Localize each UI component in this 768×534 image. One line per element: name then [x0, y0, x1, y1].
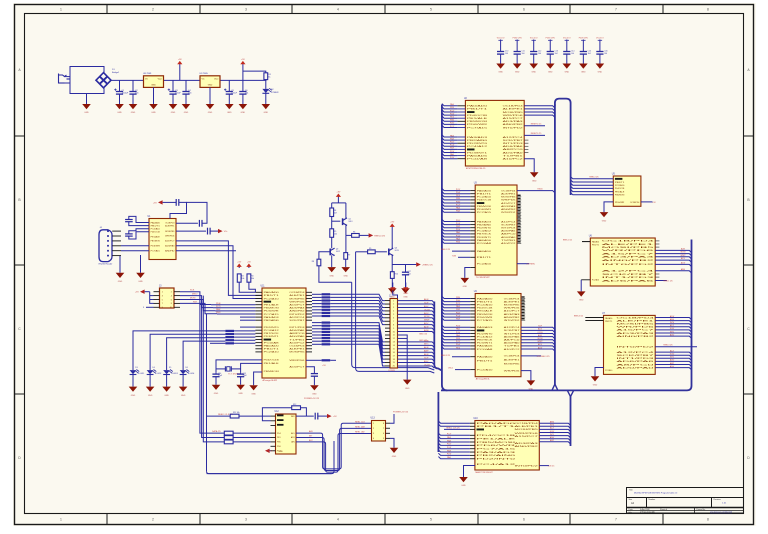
svg-text:PA0/: PA0/	[450, 103, 454, 106]
svg-text:GND: GND	[498, 72, 503, 74]
wire RP2 right	[330, 337, 366, 339]
wire J4 pin stub	[112, 245, 121, 247]
svg-text:AD6/PA6: AD6/PA6	[503, 145, 525, 148]
wire J3 right stub	[174, 302, 180, 304]
svg-text:GND: GND	[138, 281, 143, 283]
wire U11 left stub b	[255, 345, 262, 347]
resistor R5	[330, 229, 334, 238]
wire U3 left pin	[470, 211, 475, 213]
svg-text:6: 6	[171, 299, 172, 301]
wire U7 right label pin	[655, 346, 697, 348]
ground	[461, 278, 470, 288]
svg-text:A8/PC0: A8/PC0	[616, 363, 658, 366]
svg-text:ALE/PE1: ALE/PE1	[289, 294, 306, 297]
svg-text:R11 10k: R11 10k	[233, 412, 240, 414]
resistor R3	[247, 274, 251, 282]
wire J2 top pin to VCC	[393, 291, 398, 299]
resistor R17	[322, 359, 331, 361]
svg-text:PC4/A12: PC4/A12	[477, 463, 520, 466]
svg-text:7: 7	[615, 8, 617, 12]
wire U2 left pin	[457, 155, 465, 157]
wire U7 ground pin	[595, 368, 604, 377]
IC U7	[602, 313, 658, 375]
svg-text:WR/PD6: WR/PD6	[289, 360, 306, 362]
svg-text:6: 6	[383, 433, 384, 435]
LED D3	[130, 370, 140, 375]
power port +5V R3	[246, 262, 251, 269]
svg-text:A10/PC2: A10/PC2	[503, 158, 525, 161]
ground	[129, 387, 138, 397]
svg-text:GND: GND	[171, 112, 176, 114]
svg-text:8: 8	[707, 8, 709, 12]
svg-text:1: 1	[162, 292, 163, 294]
svg-text:ALE/: ALE/	[681, 248, 686, 251]
svg-text:PC4/: PC4/	[447, 447, 452, 449]
wire RP1 right	[330, 312, 366, 314]
wire U7 left pin 2	[585, 320, 603, 322]
resistor R9	[368, 250, 376, 254]
wire RP1 right	[330, 303, 366, 305]
svg-text:AD3/PA3: AD3/PA3	[503, 120, 525, 123]
svg-text:AD3: AD3	[291, 436, 295, 439]
svg-text:GND: GND	[329, 275, 334, 277]
IC U1 MAX232	[148, 216, 177, 260]
svg-text:REEL CLK: REEL CLK	[355, 421, 366, 423]
power port +9V Q	[336, 192, 341, 203]
wire J4 pin stub	[112, 235, 121, 237]
ground	[136, 273, 145, 283]
wire U6 nc stub right	[655, 243, 659, 245]
resistor R1	[264, 73, 268, 80]
wire J2 right pin to bus E	[398, 356, 435, 358]
resistor pack RP3 bar3	[225, 336, 234, 338]
wire U4 ground pin	[521, 371, 531, 381]
wire bus A top arc to bus B	[555, 99, 571, 195]
svg-text:PC2/A10: PC2/A10	[477, 262, 493, 265]
resistor pack RP1 bar7	[322, 312, 331, 314]
IC U4	[474, 291, 522, 381]
svg-text:GND: GND	[131, 112, 136, 114]
svg-text:AIN0/PB2: AIN0/PB2	[515, 445, 540, 448]
svg-text:Size: Size	[629, 499, 633, 501]
svg-text:WR/: WR/	[291, 416, 295, 418]
svg-text:RESET1 /25: RESET1 /25	[531, 124, 542, 126]
svg-text:PB5/: PB5/	[456, 297, 461, 299]
svg-text:AD6/: AD6/	[550, 436, 555, 439]
resistor R15	[224, 440, 233, 444]
ground	[169, 104, 178, 114]
svg-text:R12: R12	[293, 404, 296, 406]
svg-text:15: 15	[393, 348, 395, 350]
svg-text:PD3/: PD3/	[456, 326, 461, 328]
svg-text:2: 2	[393, 304, 394, 306]
svg-text:PC7/A15: PC7/A15	[477, 448, 520, 451]
svg-text:5: 5	[430, 518, 432, 522]
svg-text:AIN0/PB2: AIN0/PB2	[289, 310, 305, 313]
svg-text:INT0/PD2: INT0/PD2	[504, 320, 521, 322]
wire U2 nc stub	[524, 142, 528, 144]
svg-text:R-LED4: R-LED4	[188, 373, 194, 375]
resistor pack RP1 bar3	[322, 299, 331, 301]
svg-text:4k7: 4k7	[334, 213, 337, 215]
svg-text:PE1/: PE1/	[456, 347, 461, 349]
svg-text:PA0/AD0: PA0/AD0	[605, 317, 613, 320]
svg-text:ALE/: ALE/	[424, 312, 429, 315]
wire U5 ground pin	[604, 202, 613, 212]
svg-text:VCC5 IO: VCC5 IO	[530, 37, 538, 39]
svg-text:104: 104	[604, 53, 607, 55]
svg-text:PA3/AD3: PA3/AD3	[264, 316, 281, 319]
wire U2 RESET pin	[524, 125, 545, 127]
svg-text:PA3/: PA3/	[450, 134, 454, 137]
svg-text:T1/PB1: T1/PB1	[504, 346, 522, 348]
svg-text:A15/PC7: A15/PC7	[602, 252, 659, 255]
wire J3 right stub	[174, 295, 180, 297]
capacitor C13	[208, 228, 211, 235]
svg-text:PB2/AIN0: PB2/AIN0	[467, 139, 489, 142]
svg-text:GND: GND	[581, 72, 586, 74]
svg-text:PC7/: PC7/	[450, 126, 455, 128]
net port +REEL	[416, 262, 433, 266]
svg-text:3: 3	[245, 518, 247, 522]
wire MCU to RP2	[312, 325, 322, 327]
svg-text:19: 19	[393, 362, 395, 364]
wire RP2 right	[330, 343, 366, 345]
svg-text:+5V: +5V	[153, 202, 157, 204]
wire U10 left pin	[470, 425, 475, 427]
svg-text:4: 4	[337, 518, 339, 522]
svg-text:GND: GND	[392, 456, 397, 458]
svg-text:T1/P: T1/P	[424, 357, 429, 359]
wire R1 to LED D2	[265, 80, 267, 89]
resistor R2	[237, 274, 241, 282]
capacitor C14	[563, 52, 570, 55]
wire J2 right pin to bus E	[398, 325, 435, 327]
svg-text:REEL1 CLK /25: REEL1 CLK /25	[446, 427, 459, 429]
wire U10 right pin to bus	[539, 433, 570, 435]
resistor pack RP3 bar1	[225, 330, 234, 332]
svg-text:OC1B: OC1B	[424, 309, 430, 311]
wire J2 right pin to bus E	[398, 304, 435, 306]
svg-text:A8/PC0: A8/PC0	[503, 148, 525, 151]
svg-text:REEL4 /25: REEL4 /25	[589, 177, 598, 179]
svg-text:PE1/ALE: PE1/ALE	[264, 304, 280, 307]
wire J2 left stub	[385, 365, 390, 367]
svg-text:PB2/AIN0: PB2/AIN0	[264, 319, 280, 322]
svg-text:OC1B/PD4: OC1B/PD4	[289, 292, 305, 294]
svg-text:INT0: INT0	[670, 322, 674, 324]
svg-text:PD3/: PD3/	[447, 454, 452, 456]
svg-text:104: 104	[505, 53, 508, 55]
wire Q1 emitter to R7	[345, 235, 347, 252]
wire Q1 emitter down	[345, 226, 347, 236]
svg-text:104: 104	[571, 53, 574, 55]
svg-text:A15: A15	[291, 432, 294, 435]
svg-text:PC7/: PC7/	[456, 204, 461, 206]
svg-text:RS232 Header: RS232 Header	[99, 263, 113, 266]
svg-text:AIN: AIN	[309, 430, 313, 433]
wire J3 right stub	[174, 291, 180, 293]
wire U6 right pin to bus C	[655, 260, 691, 262]
svg-text:PC2/A10: PC2/A10	[477, 304, 494, 307]
svg-text:MOSI: MOSI	[190, 297, 196, 299]
wire U10 left pin group2	[470, 434, 475, 436]
wire J2 left stub	[385, 337, 390, 339]
wire U3 left pin	[470, 242, 475, 244]
svg-text:PA3/: PA3/	[216, 308, 221, 311]
wire LED D5 ground	[166, 375, 168, 387]
svg-text:GND: GND	[532, 181, 537, 183]
svg-text:A15/PC7: A15/PC7	[165, 240, 175, 243]
wire J2 right pin to bus E	[398, 318, 435, 320]
svg-text:Vout: Vout	[158, 78, 163, 81]
svg-text:PC7/A15: PC7/A15	[477, 211, 493, 214]
svg-text:PB2/: PB2/	[447, 440, 452, 442]
wire U3 left pin	[470, 221, 475, 223]
IC U2	[464, 98, 525, 170]
capacitor C15	[237, 374, 244, 377]
svg-text:PD6/WR: PD6/WR	[151, 246, 161, 248]
connector J2 20-pin header	[388, 296, 398, 372]
capacitor C5	[224, 89, 233, 95]
wire R9 left to vertical	[356, 251, 368, 253]
wire U3 left pin	[470, 224, 475, 226]
svg-text:A15/PC7: A15/PC7	[616, 329, 657, 332]
svg-text:8: 8	[393, 324, 394, 326]
svg-text:A15/: A15/	[681, 257, 685, 260]
wire LED D4 ground	[149, 375, 151, 387]
wire U4 left pin	[470, 301, 475, 303]
connector J3 ISP header	[159, 285, 174, 309]
wire C13 to port	[210, 230, 218, 232]
svg-text:DATA /25: DATA /25	[212, 430, 221, 433]
wire U6 nc stub right 2	[655, 276, 659, 278]
wire MCU right pin to cap	[306, 367, 314, 374]
wire R9 right to Q3 base	[375, 251, 387, 253]
capacitor C7 at U1	[125, 220, 133, 222]
wire connector stubs	[65, 76, 71, 78]
wire J4 pin stub	[112, 240, 121, 242]
power port +5V left	[153, 200, 163, 204]
capacitor C12	[199, 220, 202, 227]
svg-text:A15/PC7: A15/PC7	[289, 304, 306, 307]
svg-text:INT0/PD2: INT0/PD2	[515, 465, 540, 467]
wire Q2 base left	[319, 252, 330, 259]
wire U3 left pin	[470, 227, 475, 229]
svg-text:MOSI/PB5: MOSI/PB5	[501, 197, 516, 199]
wire R to U12	[233, 432, 270, 434]
svg-text:PC4/A12: PC4/A12	[264, 329, 281, 332]
wire cap C3 branch	[172, 80, 174, 91]
wire MCU to RP1	[312, 312, 322, 314]
svg-text:PB1/T1: PB1/T1	[477, 257, 493, 259]
svg-text:PC4/A12: PC4/A12	[477, 230, 493, 233]
svg-text:Sheet of: Sheet of	[660, 508, 668, 511]
svg-text:VCC5 IO: VCC5 IO	[497, 37, 505, 39]
wire J2 left stub	[385, 348, 390, 350]
wire bus E header vertical	[434, 302, 442, 371]
svg-text:GND: GND	[84, 112, 89, 114]
power port GND J2	[403, 283, 408, 296]
wire Q top rail	[332, 202, 346, 204]
wire MCU to RP1	[312, 303, 322, 305]
svg-text:PB7/SCK: PB7/SCK	[264, 333, 280, 335]
svg-text:A10/: A10/	[424, 305, 429, 308]
svg-text:T1/PB1: T1/PB1	[289, 339, 306, 341]
svg-text:2: 2	[373, 428, 374, 430]
wire U10 left pin group2	[470, 441, 475, 443]
wire U11 left stub	[255, 307, 262, 309]
svg-text:WR/P: WR/P	[681, 255, 687, 257]
wire U2 left pin	[457, 158, 465, 160]
svg-text:AD3/PA3: AD3/PA3	[602, 256, 659, 259]
svg-text:PE1/ALE: PE1/ALE	[151, 235, 161, 238]
svg-text:7: 7	[615, 518, 617, 522]
svg-text:GND: GND	[208, 112, 213, 114]
wire J3 pin9 left	[146, 306, 154, 308]
wire U3 nc stub	[517, 196, 521, 198]
svg-text:AIN0/PB2: AIN0/PB2	[504, 316, 521, 319]
svg-text:PB1/T1: PB1/T1	[605, 321, 613, 323]
wire U11 left stub b	[255, 342, 262, 344]
svg-text:OC1B: OC1B	[537, 332, 543, 334]
wire LED branch	[243, 71, 266, 73]
wire U4 nc stub right	[521, 307, 525, 309]
svg-text:GND: GND	[117, 112, 122, 114]
net port REEL0	[369, 233, 386, 237]
wire U11 left stub b	[255, 326, 262, 328]
wire U6 right pin to bus C	[655, 254, 691, 256]
svg-text:1: 1	[373, 423, 374, 425]
resistor pack RP3 bar4	[225, 339, 234, 341]
svg-text:1: 1	[60, 518, 62, 522]
wire U11 left short	[240, 316, 255, 318]
wire U4 nc stub right	[521, 301, 525, 303]
svg-text:INT0/PD2: INT0/PD2	[503, 127, 525, 129]
wire MCU to RP2	[312, 331, 322, 333]
ground	[600, 212, 609, 222]
wire U4 right pin to bus A	[521, 349, 555, 351]
svg-text:U12: U12	[275, 411, 280, 413]
wire U3 nc stub	[517, 208, 521, 210]
wire U6 ground pin	[581, 279, 590, 281]
wire U3 nc stub	[517, 239, 521, 241]
wire U10 left label pin	[470, 428, 475, 430]
svg-text:PA6/AD6: PA6/AD6	[467, 154, 489, 157]
wire R5 down to Q2	[331, 237, 333, 248]
wire U4 nc stub right	[521, 319, 525, 321]
capacitor C9	[176, 199, 179, 206]
svg-text:GND: GND	[151, 85, 156, 87]
svg-text:P5V0 CPU: P5V0 CPU	[513, 37, 523, 39]
svg-text:U10: U10	[473, 418, 478, 420]
svg-text:GND: GND	[184, 112, 189, 114]
power port VS-	[218, 229, 228, 233]
IC U12 shift register	[275, 411, 297, 454]
wire U6 nc stub right 2	[655, 273, 659, 275]
svg-text:ALE/PE1: ALE/PE1	[289, 348, 306, 351]
svg-text:R-LED2: R-LED2	[155, 373, 161, 375]
svg-text:PA3/AD3: PA3/AD3	[477, 451, 520, 454]
svg-text:A15/PC7: A15/PC7	[289, 366, 306, 369]
svg-text:U9 7805: U9 7805	[200, 73, 209, 75]
svg-text:3: 3	[393, 307, 394, 309]
wire cap branch 3	[533, 40, 535, 52]
wire U10 left pin group2	[470, 451, 475, 453]
wire U11 left stub	[255, 304, 262, 306]
svg-text:PB5/MOSI: PB5/MOSI	[264, 371, 280, 373]
svg-text:17: 17	[393, 355, 395, 357]
resistor pack RP1 bar5	[322, 306, 331, 308]
wire C15 ground	[240, 377, 242, 385]
svg-text:D3: D3	[135, 367, 137, 369]
wire MCU to RP1	[312, 309, 322, 311]
wire R8 down and right	[319, 266, 352, 283]
connector J4 DB9	[99, 230, 112, 262]
svg-text:PB5/MOSI: PB5/MOSI	[615, 195, 625, 197]
wire J2 right pin to bus E	[398, 363, 435, 365]
wire U12 left stub	[271, 450, 276, 452]
svg-text:PA3/: PA3/	[456, 207, 460, 210]
svg-text:PA0/AD0: PA0/AD0	[151, 221, 161, 224]
svg-text:10: 10	[170, 307, 172, 309]
svg-text:A10/PC2: A10/PC2	[289, 341, 306, 344]
ground	[262, 104, 271, 114]
ground	[236, 385, 245, 395]
svg-text:PB7/: PB7/	[450, 148, 455, 150]
wire RP1 right	[330, 296, 366, 298]
wire U13 right stub	[386, 427, 391, 429]
ground	[327, 267, 336, 277]
svg-text:PB5/: PB5/	[456, 198, 461, 200]
wire U4 left pin	[470, 339, 475, 341]
svg-text:A12/: A12/	[550, 427, 554, 430]
wire C12 up to vcc net	[187, 202, 208, 223]
wire U2 CLK pin	[524, 134, 545, 136]
svg-text:ATmega8515L: ATmega8515L	[476, 378, 491, 381]
svg-text:1000uF: 1000uF	[122, 93, 130, 95]
svg-text:PD3/: PD3/	[450, 151, 455, 153]
svg-text:PB1/: PB1/	[456, 338, 461, 340]
wire J4 pin stub	[112, 230, 121, 232]
svg-text:A12/PC4: A12/PC4	[501, 220, 517, 223]
svg-text:ALE/PE1: ALE/PE1	[602, 243, 659, 246]
wire J3 left stub	[154, 291, 160, 293]
wire left branch down	[331, 203, 333, 208]
ground	[225, 104, 234, 114]
wire RP2 right	[330, 331, 366, 333]
wire U10 left pin group2	[470, 458, 475, 460]
svg-text:+5V: +5V	[322, 365, 326, 367]
wire long bottom return	[207, 473, 332, 475]
svg-text:A15/: A15/	[538, 343, 542, 346]
svg-text:PB1/T1: PB1/T1	[264, 295, 281, 297]
svg-text:GND: GND	[548, 72, 553, 74]
svg-text:AD0/PA0: AD0/PA0	[289, 335, 306, 338]
wire U11 left stub	[255, 291, 262, 293]
LED D6	[180, 370, 190, 375]
svg-text:A10/PC2: A10/PC2	[504, 348, 521, 351]
svg-text:INT1: INT1	[550, 434, 554, 436]
wire RP1 right	[330, 309, 366, 311]
svg-text:PC0/A8: PC0/A8	[467, 158, 489, 161]
svg-text:PB1/T1: PB1/T1	[615, 182, 626, 184]
wire U13 vcc	[390, 414, 394, 423]
wire U4 right pin to bus A	[521, 330, 555, 332]
wire U2 right pin to bus A	[524, 106, 555, 108]
svg-text:AD6/PA6: AD6/PA6	[501, 230, 517, 233]
svg-text:8: 8	[383, 423, 384, 425]
